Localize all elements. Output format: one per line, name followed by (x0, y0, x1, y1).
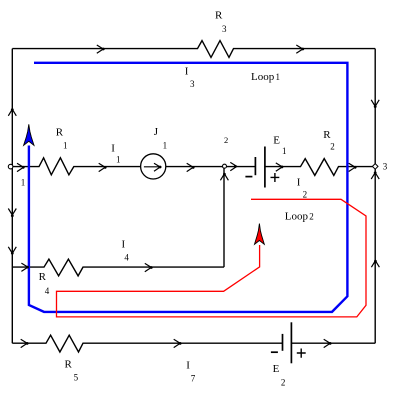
svg-text:1: 1 (276, 72, 281, 82)
svg-text:I: I (185, 65, 189, 77)
svg-text:4: 4 (45, 286, 50, 296)
svg-text:J: J (154, 126, 159, 138)
svg-text:4: 4 (124, 252, 129, 262)
svg-text:R: R (215, 9, 223, 21)
svg-text:3: 3 (190, 79, 195, 89)
svg-text:2: 2 (330, 142, 335, 152)
svg-text:3: 3 (383, 162, 388, 172)
svg-text:Loop: Loop (285, 210, 309, 222)
svg-text:5: 5 (74, 372, 79, 382)
svg-text:Loop: Loop (251, 71, 275, 83)
svg-text:I: I (297, 177, 301, 189)
svg-text:1: 1 (282, 146, 287, 156)
svg-text:1: 1 (116, 155, 121, 165)
svg-text:R: R (39, 271, 47, 283)
svg-text:7: 7 (191, 374, 196, 384)
svg-text:2: 2 (309, 211, 314, 221)
svg-text:I: I (111, 143, 115, 155)
svg-text:1: 1 (63, 140, 68, 150)
svg-text:R: R (323, 129, 331, 141)
svg-text:2: 2 (303, 189, 308, 199)
svg-text:E: E (273, 134, 280, 146)
svg-text:R: R (56, 127, 64, 139)
svg-text:2: 2 (224, 135, 228, 145)
svg-text:1: 1 (21, 178, 26, 188)
svg-text:I: I (186, 360, 190, 372)
svg-text:3: 3 (222, 24, 227, 34)
svg-text:E: E (273, 363, 280, 375)
svg-text:2: 2 (281, 377, 286, 387)
svg-text:R: R (65, 359, 73, 371)
svg-text:I: I (122, 239, 126, 251)
svg-text:1: 1 (163, 140, 168, 150)
